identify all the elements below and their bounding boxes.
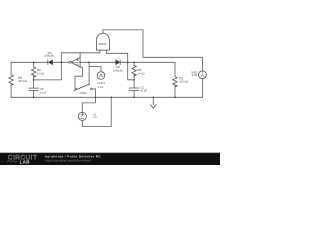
ground [151, 97, 156, 108]
wire node A down riser and jog to R4-C6 node [34, 62, 62, 80]
op-amp U1 output bubble [69, 61, 71, 63]
wire op-amp internal through line [71, 61, 80, 63]
footer bar [0, 153, 220, 165]
resistor R2 [173, 77, 177, 87]
switch SW1 throw contact [91, 88, 93, 90]
capacitor C1 top lead [133, 80, 135, 88]
resistor R3 top lead [133, 62, 135, 65]
svg-text:9 V: 9 V [93, 116, 97, 119]
junction node R4 top [33, 61, 35, 63]
junction node C6 rail [33, 96, 35, 98]
resistor R3 [132, 65, 136, 75]
svg-text:10 µF: 10 µF [140, 90, 147, 93]
resistor R4 [31, 67, 35, 77]
capacitor C1 bottom lead [133, 91, 135, 98]
svg-text:C6: C6 [40, 87, 44, 91]
wire D2 cathode to R2 riser [120, 61, 175, 63]
wire bottom ground rail [11, 96, 202, 98]
wire node A riser and AND input A line [61, 50, 100, 62]
svg-text:AND1: AND1 [98, 42, 106, 46]
wire top left horizontal to D4 [11, 61, 48, 63]
junction node C1 rail [133, 96, 135, 98]
resistor R3 bottom lead [133, 74, 135, 80]
capacitor C6 plates [29, 88, 38, 91]
op-amp U1 input marks [77, 59, 79, 64]
wire AND input B line and riser to RC node [106, 50, 134, 80]
wire switch throw to V3 plus [82, 89, 95, 112]
clock source CLK1 body [97, 72, 105, 80]
voltmeter VM1 needle glyph [201, 72, 204, 77]
diode D2 [116, 60, 121, 65]
junction node R4-C6 [33, 79, 35, 81]
wire op-amp base to D2 anode [80, 61, 116, 63]
resistor R2 top lead [174, 62, 176, 76]
wire V3 minus to ground rail [82, 97, 111, 126]
resistor R5 [9, 75, 13, 86]
svg-text:R4: R4 [37, 68, 41, 72]
junction node A [60, 61, 62, 63]
junction node ground rail [152, 96, 154, 98]
resistor R2 bottom lead [174, 85, 176, 97]
AND gate AND1 body [96, 33, 109, 50]
svg-text:100 kΩ: 100 kΩ [18, 80, 27, 83]
svg-text:10 kΩ: 10 kΩ [137, 73, 144, 76]
capacitor C6 top lead [33, 80, 35, 88]
op-amp U1 body [71, 57, 80, 67]
junction node R3-C1 [133, 79, 135, 81]
wire op-amp plus input stub [79, 53, 81, 58]
wire voltmeter bottom lead [201, 79, 203, 98]
svg-text:2 Hz: 2 Hz [98, 86, 104, 89]
voltage source V3 plus sign [81, 113, 84, 116]
capacitor C1 plates [129, 88, 138, 91]
svg-text:http://circuitlab.com/c6mr4dmr: http://circuitlab.com/c6mr4dmr6 [45, 159, 92, 163]
voltage source V3 body [78, 112, 86, 120]
switch SW1 throw tick [89, 84, 90, 85]
wire AND output to voltmeter [103, 30, 202, 71]
svg-text:CLK1: CLK1 [97, 81, 105, 85]
CircuitLab logo zigzag [7, 160, 18, 162]
junction node D2 cathode crossing [127, 61, 129, 63]
wire left branch bottom lead [10, 84, 12, 97]
switch SW1 lever [74, 84, 89, 90]
voltmeter VM1 body [199, 71, 207, 79]
wire left branch top lead [10, 62, 12, 75]
voltage source V3 minus sign [81, 118, 84, 120]
svg-text:9.08: 9.08 [192, 74, 198, 77]
wire clock top lead to throw riser [89, 62, 101, 84]
svg-text:LAB: LAB [20, 159, 31, 164]
wire D4 anode to op-amp output bubble [53, 61, 69, 63]
resistor R4 top lead [33, 62, 35, 67]
svg-text:1N4148: 1N4148 [44, 55, 54, 58]
wire op-amp minus input to switch common [75, 67, 82, 88]
capacitor C6 bottom lead [33, 91, 35, 98]
junction node R2 rail [174, 96, 176, 98]
svg-text:10 µF: 10 µF [40, 91, 47, 94]
svg-text:1N4148: 1N4148 [113, 69, 123, 72]
junction node V3 rail [110, 96, 112, 98]
clock source CLK1 waveform glyph [99, 74, 103, 76]
junction node R3 top [133, 62, 135, 64]
resistor R4 bottom lead [33, 75, 35, 80]
svg-text:SW1: SW1 [80, 91, 87, 95]
diode D4 [48, 60, 53, 65]
svg-text:R3: R3 [137, 68, 141, 72]
svg-text:100 kΩ: 100 kΩ [179, 81, 188, 84]
junction node supply crossing [95, 97, 97, 99]
junction node clock-switch net [88, 61, 90, 63]
svg-text:10 kΩ: 10 kΩ [37, 72, 44, 75]
switch SW1 common contact [75, 88, 77, 90]
